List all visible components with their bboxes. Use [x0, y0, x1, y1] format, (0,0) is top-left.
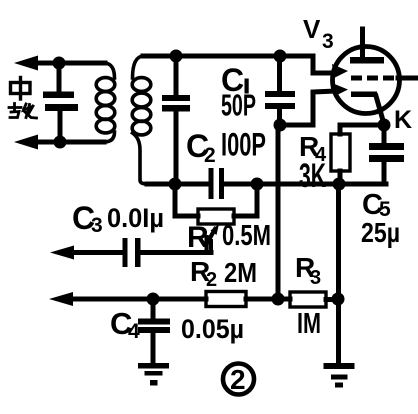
- arrow left top: [14, 56, 38, 71]
- cathode lead to K: [376, 96, 384, 124]
- wire rail y=184 left segment: [147, 182, 209, 187]
- wire grid jog to tube: [280, 91, 336, 125]
- node C1 bottom: [274, 119, 287, 132]
- resistor R1 loop right: [234, 184, 257, 216]
- wire right vertical to ground: [336, 184, 341, 363]
- svg-text:2: 2: [204, 144, 216, 167]
- wire rail y=184 right segment: [224, 182, 386, 187]
- wiper arrow R1: [209, 241, 213, 253]
- svg-text:25µ: 25µ: [361, 217, 400, 248]
- resistor R1 loop left: [175, 184, 198, 216]
- label 放: [9, 104, 37, 119]
- wire K to R4: [340, 125, 384, 134]
- node R3 right: [332, 293, 345, 306]
- wire top-left antenna rail: [34, 61, 105, 66]
- arrow into tube upper: [332, 64, 348, 78]
- wire long vertical from C1 bottom to R2/R3 rail: [276, 125, 281, 299]
- svg-text:3: 3: [310, 267, 321, 289]
- inductor L1 primary coil: [96, 63, 115, 142]
- arrow left bottom: [14, 135, 38, 150]
- wire top rail: [143, 56, 336, 73]
- wire R2 to junction: [246, 297, 290, 302]
- svg-text:3: 3: [322, 30, 334, 53]
- node rail/R1 left: [169, 178, 182, 191]
- capacitor antenna stem bottom: [58, 111, 63, 142]
- svg-text:0.05µ: 0.05µ: [181, 314, 244, 344]
- arrow left C3 line: [50, 246, 74, 260]
- capacitor C3 plates: [123, 238, 128, 267]
- label 中: [11, 78, 31, 100]
- node top rail at C1: [274, 50, 287, 63]
- arrow into tube lower: [332, 83, 348, 97]
- capacitor tank: stem: [174, 56, 179, 95]
- node antenna top: [53, 57, 66, 70]
- wire R3 to ground vertical: [326, 297, 338, 302]
- wire bottom-left antenna rail: [34, 140, 104, 145]
- cathode bar: [351, 92, 377, 98]
- capacitor antenna tuning: stem top: [57, 63, 62, 91]
- resistor R4 body: [331, 134, 350, 171]
- tube V3 envelope: [333, 47, 400, 114]
- node rail/R1 right: [251, 178, 264, 191]
- svg-text:0.0Iµ: 0.0Iµ: [107, 203, 164, 233]
- wire R4 bottom: [338, 171, 343, 184]
- anode plate: [350, 57, 384, 64]
- svg-text:0.5M: 0.5M: [222, 220, 271, 252]
- capacitor antenna plates: [43, 92, 74, 99]
- node antenna bottom: [54, 136, 67, 149]
- resistor R2 body: [206, 292, 246, 307]
- capacitor C4: [151, 299, 156, 318]
- svg-text:2: 2: [206, 269, 217, 291]
- node R2/R3 junction: [272, 293, 285, 306]
- resistor R3 body: [290, 292, 326, 307]
- capacitor C1: [277, 56, 282, 91]
- figure number circled 2: [223, 364, 254, 395]
- svg-text:3K: 3K: [299, 157, 326, 195]
- node top rail at tank cap: [170, 50, 183, 63]
- capacitor C2 plates: [209, 168, 214, 199]
- svg-text:I00P: I00P: [221, 127, 266, 163]
- grid dashed: [351, 76, 394, 81]
- wire C3 line right: [140, 250, 211, 255]
- node C4: [147, 293, 160, 306]
- anode lead: [360, 29, 365, 58]
- wire rail y=299 left: [69, 297, 206, 302]
- svg-text:50P: 50P: [221, 88, 256, 123]
- svg-text:K: K: [394, 106, 412, 134]
- svg-text:2: 2: [230, 364, 246, 395]
- ground left: [138, 363, 169, 386]
- inductor L2 secondary coil: [132, 56, 151, 184]
- wire C3 line left: [70, 250, 122, 255]
- svg-text:2M: 2M: [224, 257, 257, 288]
- svg-text:V: V: [303, 14, 321, 44]
- svg-text:IM: IM: [297, 308, 321, 340]
- arrow left AVC rail: [49, 292, 73, 306]
- node K: [378, 119, 391, 132]
- grid lead out right: [398, 76, 418, 81]
- node R4/C5 bottom: [333, 178, 346, 191]
- resistor R1 body: [198, 209, 234, 224]
- svg-text:4: 4: [128, 320, 140, 343]
- svg-text:3: 3: [91, 214, 103, 237]
- ground right: [324, 363, 355, 388]
- capacitor C5: [382, 125, 387, 144]
